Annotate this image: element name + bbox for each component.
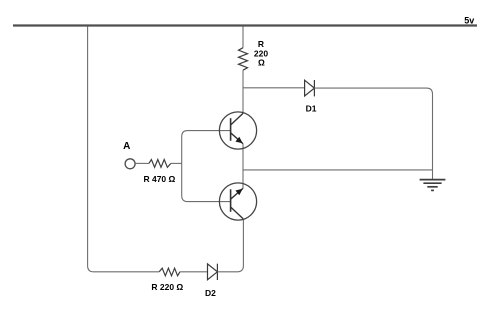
svg-text:Ω: Ω (258, 58, 265, 68)
svg-text:R 470 Ω: R 470 Ω (143, 174, 175, 184)
wire: output to ground (243, 169, 433, 171)
transistor Q2 (bottom NPN, mirrored) (219, 183, 256, 220)
wire: A to R470 (135, 162, 149, 164)
wire: R220 to Q1 collector (242, 70, 244, 113)
wire: emitters junction vertical (242, 144, 244, 189)
wire: R220 to D2 (180, 271, 208, 273)
wire: R470 to base bus (171, 162, 182, 164)
wire: base bus to Q1 and Q2 bases (182, 131, 230, 202)
svg-text:D2: D2 (205, 288, 216, 298)
resistor R220 (top, vertical) (239, 48, 248, 70)
transistor Q1 (top NPN) (219, 112, 256, 149)
svg-text:5v: 5v (464, 16, 474, 26)
ground (420, 180, 446, 191)
wire: branch to D1 (243, 87, 305, 89)
svg-text:A: A (123, 141, 130, 152)
svg-text:R: R (258, 39, 264, 49)
svg-text:R 220 Ω: R 220 Ω (151, 282, 183, 292)
resistor R220 (bottom) (159, 268, 180, 276)
wire: center drop from rail to R220 top (242, 27, 244, 48)
svg-text:D1: D1 (306, 103, 317, 113)
wire: D2 up to Q2 collector (217, 219, 243, 272)
resistor R470 (149, 160, 171, 168)
diode D2 (208, 264, 218, 280)
wire: D1 to right drop down to ground (314, 88, 432, 179)
diode D1 (305, 80, 315, 96)
5v power rail (13, 24, 477, 26)
wire: left drop from rail to bottom row (88, 27, 160, 272)
